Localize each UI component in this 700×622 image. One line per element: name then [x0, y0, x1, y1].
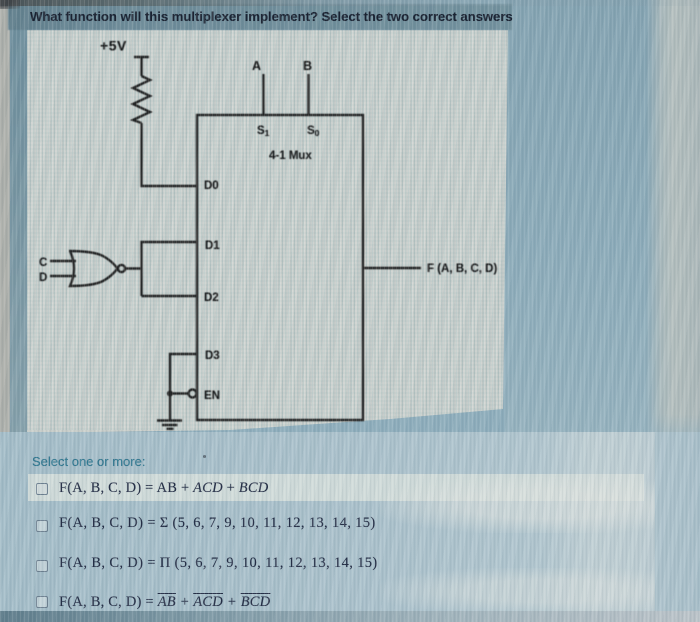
- label B: [303, 59, 312, 73]
- svg-text:B: B: [303, 59, 312, 73]
- wire output F: [363, 267, 421, 269]
- option 3 text: [59, 555, 378, 572]
- svg-text:S1: S1: [257, 125, 270, 138]
- svg-text:D0: D0: [204, 180, 219, 192]
- label +5V: [100, 38, 127, 54]
- option 4 text: [59, 594, 270, 611]
- options area background: [0, 432, 700, 612]
- label D1: [205, 240, 220, 252]
- svg-text:A: A: [252, 59, 261, 73]
- label S0: [307, 125, 320, 138]
- wire D input: [50, 275, 76, 277]
- svg-text:C: C: [39, 257, 47, 269]
- svg-text:D3: D3: [205, 350, 220, 362]
- resistor R1: [133, 76, 150, 123]
- wire resistor to D0: [142, 123, 198, 186]
- very top dark strip: [0, 0, 700, 6]
- wire to D3: [170, 354, 197, 420]
- select line A: [262, 74, 264, 115]
- junction dot EN: [167, 391, 173, 397]
- wire to D2: [142, 295, 198, 297]
- wire to D1: [142, 242, 198, 296]
- select line B: [307, 74, 309, 115]
- NOR gate G1: [69, 251, 125, 286]
- bottom strip: [0, 611, 700, 622]
- 4-1 mux U1 box: [197, 115, 363, 420]
- svg-text:+5V: +5V: [100, 38, 127, 54]
- svg-text:EN: EN: [204, 390, 220, 402]
- select prompt: [32, 454, 145, 469]
- label D0: [204, 180, 219, 192]
- svg-text:D1: D1: [205, 240, 220, 252]
- svg-text:4-1 Mux: 4-1 Mux: [269, 150, 312, 162]
- label F(A,B,C,D): [427, 263, 497, 275]
- svg-text:S0: S0: [307, 125, 320, 138]
- ground: [157, 421, 182, 429]
- right blue background area: [505, 0, 700, 622]
- checkbox 2: [36, 520, 48, 532]
- left teal strip: [10, 28, 27, 448]
- checkbox 4: [36, 596, 48, 608]
- moire texture on panel: [27, 30, 508, 430]
- option1 light band: [28, 474, 644, 501]
- svg-text:D2: D2: [204, 292, 219, 304]
- wire EN: [170, 390, 197, 398]
- right light strip: [646, 0, 700, 450]
- header bar: [8, 4, 512, 30]
- wire NOR output: [125, 267, 141, 269]
- option 1 text: [59, 480, 268, 497]
- label D: [39, 272, 47, 284]
- label EN: [204, 390, 220, 402]
- label S1: [257, 125, 270, 138]
- right-side lighter patches in options area: [540, 432, 655, 612]
- label D3: [205, 350, 220, 362]
- label C: [39, 257, 47, 269]
- svg-text:F (A, B, C, D): F (A, B, C, D): [427, 263, 497, 275]
- checkbox 1: [36, 483, 48, 495]
- +5V supply T-bar: [134, 57, 149, 76]
- stray mark: [203, 455, 206, 458]
- svg-text:D: D: [39, 272, 47, 284]
- far-left gray strip: [0, 0, 10, 450]
- wire C input: [50, 260, 76, 262]
- label D2: [204, 292, 219, 304]
- checkbox 3: [36, 560, 48, 572]
- title text: [30, 9, 550, 24]
- option 2 text: [59, 515, 376, 532]
- label 4-1 Mux: [269, 150, 312, 162]
- label A: [252, 59, 261, 73]
